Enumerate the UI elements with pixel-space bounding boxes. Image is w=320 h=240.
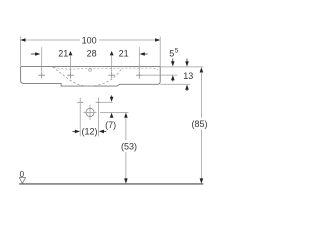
chain dim arrow at tick A: [31, 53, 36, 55]
5.5 bottom up arrow: [171, 75, 175, 80]
rim inner dashed line: [54, 67, 159, 70]
svg-text:(7): (7): [105, 120, 116, 130]
datum triangle: [19, 178, 25, 184]
svg-text:(12): (12): [81, 127, 97, 137]
svg-text:5: 5: [175, 48, 179, 55]
dimension (85): [200, 67, 204, 72]
tap hole cross C: [108, 72, 115, 79]
extension line through F: [98, 98, 100, 137]
extension line basin top right: [161, 66, 204, 68]
up arrow tick C: [110, 51, 114, 55]
13 top down arrow: [186, 59, 188, 62]
svg-text:5: 5: [169, 48, 174, 58]
bowl dashed outline: [53, 67, 122, 86]
tap hole cross D: [136, 72, 143, 79]
extension line left of 100: [19, 37, 21, 66]
drain circle G: [86, 108, 94, 116]
svg-text:28: 28: [87, 48, 97, 58]
tap hole cross A: [38, 72, 45, 79]
tap hole cross B: [67, 72, 74, 79]
floor line: [19, 183, 203, 185]
extension line through E: [79, 98, 81, 137]
tick A extension line: [41, 47, 43, 72]
dimension (7) down arrow: [111, 95, 113, 97]
5.5 top down arrow: [172, 59, 174, 62]
dimension (53): [124, 113, 128, 118]
up arrow tick B: [69, 51, 73, 55]
13 bottom up arrow: [185, 85, 189, 90]
svg-text:21: 21: [119, 48, 129, 58]
chain dim arrow at tick D: [140, 52, 145, 56]
extension line basin bottom right: [160, 83, 190, 85]
washbasin front outline: [21, 66, 161, 86]
leader from drain: [100, 111, 128, 113]
dimension 100 line: [26, 39, 80, 41]
svg-text:(53): (53): [121, 141, 137, 151]
svg-text:21: 21: [58, 48, 68, 58]
tick D extension line: [138, 47, 140, 72]
fixing hole cross F: [96, 101, 102, 103]
dimension (12) right arrow: [99, 130, 104, 134]
extension line right of 100: [159, 37, 161, 67]
svg-text:13: 13: [183, 71, 193, 81]
leader from cross D: [143, 74, 178, 76]
dimension (7) up arrow: [110, 113, 114, 118]
svg-text:(85): (85): [191, 119, 207, 129]
svg-text:100: 100: [82, 35, 97, 45]
leader from cross F: [102, 101, 113, 103]
overflow circle: [89, 69, 92, 72]
fixing hole cross E: [77, 101, 83, 103]
drain crosshair: [84, 105, 97, 120]
dimension (12) left arrow: [72, 130, 75, 132]
